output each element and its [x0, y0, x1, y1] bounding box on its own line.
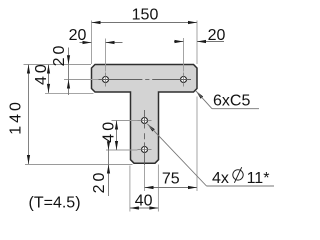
ext stem left lower (x=130)	[129, 166, 131, 212]
ext left hole horizontal (y=79)	[64, 79, 99, 81]
dim line 40 left	[48, 65, 50, 93]
ext left hole vertical (x=105.5)	[105, 39, 107, 72]
ext bar bottom left (y=93.2)	[45, 93, 94, 95]
ext left edge top (x=91.5)	[91, 21, 93, 65]
svg-text:20: 20	[51, 43, 68, 67]
dim line 20 bottom-left	[108, 144, 110, 197]
ext stem center lower (x=144.4)	[144, 166, 146, 191]
arrow leader 6xC5	[196, 91, 203, 99]
crosshair hole D horizontal	[138, 149, 152, 151]
leader line 4x dia11	[147, 124, 274, 186]
svg-text:150: 150	[132, 7, 159, 24]
ext right hole vertical (x=183.5)	[183, 38, 185, 72]
hole D stem lower	[142, 147, 148, 153]
svg-text:75: 75	[162, 170, 180, 187]
dim line 40 stem holes	[116, 121, 118, 151]
ext stem bottom (y=164.3)	[25, 164, 133, 166]
arrows 40 stem	[115, 121, 118, 130]
dim line 75	[145, 187, 198, 189]
T-plate body	[92, 65, 198, 164]
ext stem hole2 (y=149.5)	[106, 149, 138, 151]
hole A left top	[103, 77, 109, 83]
ext bar top left (y=64.3)	[24, 64, 92, 66]
dim line 20 left-top vertical	[68, 48, 70, 96]
svg-text:40: 40	[101, 119, 118, 143]
dim line 20 top-right	[174, 41, 184, 43]
arrows 140	[27, 65, 30, 74]
hole C stem upper	[142, 118, 148, 124]
svg-text:11*: 11*	[247, 170, 270, 187]
center line vertical through stem holes (chain)	[144, 110, 146, 166]
dim line 140	[28, 65, 30, 165]
arrows 150	[92, 21, 101, 24]
dim line 40 bottom	[130, 207, 159, 209]
crosshair hole B vertical	[183, 73, 185, 87]
diameter symbol	[233, 167, 243, 183]
leader line 6xC5	[196, 91, 259, 109]
crosshair hole A vertical	[106, 73, 184, 150]
arrows 40 left	[47, 65, 50, 74]
svg-text:20: 20	[208, 27, 226, 44]
arrows 75	[145, 186, 154, 189]
svg-text:20: 20	[91, 170, 108, 194]
svg-text:4x: 4x	[212, 170, 229, 187]
arrows 20 bottom-left	[107, 141, 110, 150]
dimension lines	[29, 23, 225, 209]
svg-text:6xC5: 6xC5	[213, 93, 250, 110]
arrows 20 left-top vertical	[67, 55, 70, 64]
center line horizontal through top holes (chain)	[99, 79, 192, 81]
dim line 20 top-left	[80, 42, 92, 44]
crosshair hole C horizontal	[138, 120, 152, 122]
arrow leader 4x dia11	[147, 124, 154, 132]
arrowheads	[27, 21, 206, 210]
svg-text:140: 140	[8, 99, 25, 135]
arrows 20 top-right	[175, 40, 184, 43]
dim line 150	[92, 22, 198, 24]
ext stem hole1 (y=120.5)	[112, 120, 138, 122]
extension lines	[24, 21, 198, 212]
arrows 40 bottom	[130, 206, 139, 209]
svg-text:(T=4.5): (T=4.5)	[29, 194, 81, 211]
ext right edge lower (x=197)	[196, 97, 198, 192]
ext stem right lower (x=158.4)	[157, 165, 159, 212]
hole B right top	[181, 77, 187, 83]
ext right edge top (x=197)	[196, 21, 198, 65]
svg-text:40: 40	[33, 61, 50, 85]
svg-text:40: 40	[135, 192, 153, 209]
svg-text:20: 20	[69, 27, 87, 44]
arrows 20 top-left	[83, 41, 92, 44]
